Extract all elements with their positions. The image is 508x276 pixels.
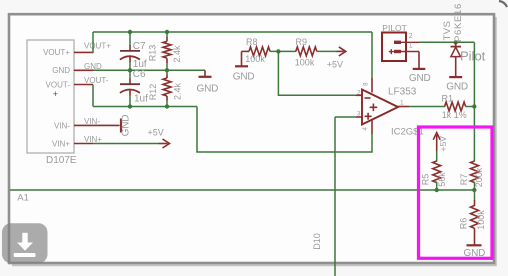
- svg-text:1uf: 1uf: [134, 94, 148, 105]
- node R1 out: [472, 104, 476, 108]
- resistor R5: [421, 161, 447, 187]
- wire pilot vertical: [473, 42, 475, 161]
- pin VIN-: [74, 124, 120, 126]
- highlight annotation box: [419, 127, 493, 258]
- ground (VIN-) rotated: [121, 115, 132, 137]
- pin VOUT+: [74, 51, 93, 53]
- node R7/A1: [472, 188, 476, 192]
- wire PILOT pin2 to node: [419, 41, 474, 43]
- wire R7 to A1: [474, 182, 476, 190]
- svg-text:+5V: +5V: [148, 127, 164, 137]
- svg-text:R7: R7: [459, 174, 469, 186]
- diode D1 TVS: [442, 3, 464, 77]
- node rail1/R13: [165, 30, 169, 34]
- wire A1 to R6: [474, 190, 476, 200]
- wire VOUT- down: [92, 85, 94, 107]
- ground (rail2): [197, 70, 219, 94]
- svg-text:2.4k: 2.4k: [172, 45, 182, 63]
- wire op-amp in+: [335, 116, 356, 118]
- wire node to op-amp in-: [278, 51, 356, 95]
- svg-text:GND: GND: [446, 82, 468, 93]
- svg-text:GND: GND: [233, 72, 255, 83]
- node TVS: [454, 40, 458, 44]
- wire A1 horizontal: [10, 189, 474, 191]
- connector J1 D107E body: [27, 40, 77, 166]
- svg-text:R8: R8: [246, 37, 258, 47]
- svg-text:56k: 56k: [437, 172, 447, 187]
- svg-text:R5: R5: [421, 174, 431, 186]
- supply +5V arrow (R9): [327, 47, 346, 70]
- supply +5V arrow (R5): [433, 133, 448, 152]
- wire rail1 top: [93, 31, 372, 33]
- svg-text:VIN+: VIN+: [52, 139, 70, 148]
- svg-text:R12: R12: [148, 84, 158, 101]
- svg-text:100k: 100k: [295, 58, 315, 68]
- node rail3/C6: [128, 104, 132, 108]
- svg-text:D10: D10: [312, 233, 322, 250]
- wire R1 to node: [466, 106, 475, 108]
- resistor R1: [442, 94, 467, 121]
- resistor R9: [295, 37, 317, 67]
- svg-text:P6KE16: P6KE16: [453, 3, 464, 42]
- svg-text:TVS: TVS: [442, 21, 453, 41]
- svg-text:VOUT+: VOUT+: [84, 41, 111, 50]
- svg-text:VIN-: VIN-: [84, 117, 100, 126]
- ground (R6): [464, 228, 486, 259]
- op-amp U1 LF353: [356, 78, 424, 138]
- node rail2/R13: [165, 68, 169, 72]
- node rail2/C7: [128, 68, 132, 72]
- svg-text:C7: C7: [133, 41, 146, 52]
- resistor R8: [242, 37, 271, 64]
- resistor R7: [459, 161, 484, 187]
- ground (R8 left): [233, 51, 255, 82]
- svg-text:LF353: LF353: [388, 86, 417, 97]
- wire rail2 GND: [93, 69, 205, 71]
- svg-text:R9: R9: [296, 37, 308, 47]
- wire R8 to node: [270, 50, 296, 52]
- svg-text:R13: R13: [148, 45, 158, 62]
- svg-text:2: 2: [409, 33, 413, 40]
- wire R5 to A1: [436, 182, 438, 190]
- svg-text:1: 1: [400, 100, 404, 107]
- corner mark: [499, 1, 507, 7]
- pin GND: [74, 69, 93, 71]
- svg-text:VOUT+: VOUT+: [43, 48, 70, 57]
- ground (TVS): [446, 77, 468, 93]
- node R8/R9: [276, 49, 280, 53]
- svg-text:1k 1%: 1k 1%: [442, 110, 467, 120]
- download icon overlay: [2, 223, 48, 263]
- wire op-amp out to R1: [409, 106, 445, 108]
- svg-text:R6: R6: [458, 218, 468, 230]
- svg-text:A1: A1: [17, 193, 29, 204]
- svg-text:GND: GND: [197, 84, 219, 95]
- svg-text:100k: 100k: [476, 210, 486, 230]
- svg-text:+: +: [53, 89, 58, 99]
- svg-text:GND: GND: [409, 73, 431, 84]
- node rail3/R12: [165, 104, 169, 108]
- node R5/A1: [435, 188, 439, 192]
- wire VOUT+ up: [92, 32, 94, 53]
- wire +5V to R5: [436, 151, 438, 162]
- svg-text:GND: GND: [52, 66, 70, 75]
- svg-text:100k: 100k: [245, 54, 265, 64]
- wire rail3: [93, 106, 197, 108]
- svg-text:2: 2: [357, 90, 361, 97]
- svg-text:VOUT-: VOUT-: [84, 76, 109, 85]
- supply +5V arrow (VIN+): [148, 127, 170, 148]
- pin VOUT-: [74, 84, 93, 86]
- svg-text:2.4k: 2.4k: [172, 82, 182, 100]
- connector PILOT: [382, 23, 419, 61]
- node rail1/C7: [128, 30, 132, 34]
- svg-text:PILOT: PILOT: [382, 23, 407, 33]
- ground (PILOT pin1): [409, 52, 431, 85]
- svg-text:1: 1: [409, 43, 413, 50]
- resistor R13: [148, 32, 182, 70]
- svg-text:+5V: +5V: [438, 136, 448, 152]
- svg-text:GND: GND: [121, 115, 132, 137]
- pin VIN+: [74, 143, 93, 145]
- svg-text:VOUT-: VOUT-: [46, 80, 71, 89]
- svg-text:D107E: D107E: [46, 155, 77, 166]
- wire rail1 drop to op-amp V+: [371, 32, 373, 78]
- svg-text:3: 3: [357, 110, 361, 117]
- resistor R12: [148, 70, 182, 106]
- svg-text:VIN-: VIN-: [54, 121, 70, 130]
- wire rail3 to op-amp V-: [197, 107, 372, 153]
- wire R9 to +5V: [317, 50, 337, 52]
- capacitor C7: [120, 32, 147, 70]
- svg-text:+5V: +5V: [327, 59, 343, 69]
- svg-text:C6: C6: [133, 69, 146, 80]
- svg-text:R1: R1: [442, 94, 454, 104]
- svg-text:Pilot: Pilot: [460, 49, 486, 64]
- resistor R6: [458, 206, 486, 230]
- svg-text:200k: 200k: [474, 167, 484, 187]
- wire VIN+ to +5V: [93, 143, 159, 145]
- capacitor C6: [120, 69, 148, 107]
- wire D10 vertical: [334, 117, 336, 276]
